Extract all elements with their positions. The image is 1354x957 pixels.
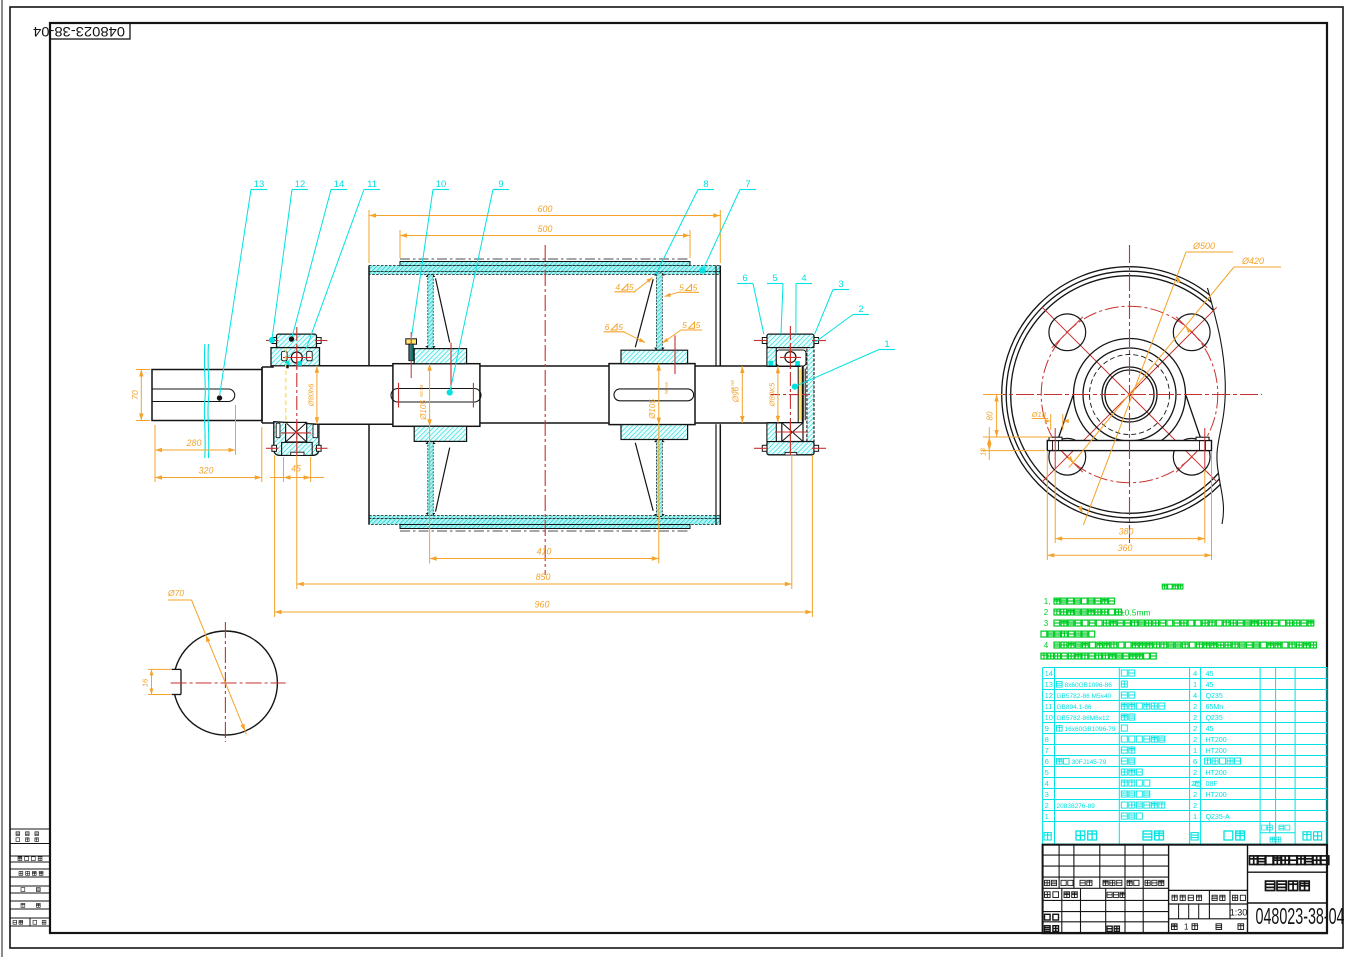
svg-text:7: 7 — [745, 179, 750, 190]
drum shell top plate — [369, 266, 720, 272]
left bearing hidden key — [285, 348, 287, 424]
svg-text:45: 45 — [1206, 671, 1214, 678]
svg-text:6: 6 — [742, 273, 747, 284]
dim 45 — [283, 457, 285, 482]
dim 70 — [136, 369, 150, 371]
svg-text:HT200: HT200 — [1206, 792, 1227, 799]
right web plate — [656, 273, 662, 350]
shaft step — [261, 367, 263, 423]
title block middle — [1169, 889, 1248, 891]
svg-text:1: 1 — [1184, 923, 1189, 932]
svg-text:Q235: Q235 — [1206, 715, 1223, 722]
dim 360 — [1046, 452, 1048, 560]
svg-text:H8: H8 — [419, 384, 424, 390]
svg-text:Ø80h6: Ø80h6 — [307, 383, 316, 407]
left web plate — [428, 275, 433, 349]
svg-text:Ø105: Ø105 — [419, 400, 428, 421]
svg-text:20838276-89: 20838276-89 — [1057, 803, 1096, 810]
svg-text:H8: H8 — [664, 382, 669, 388]
svg-text:30FJ145-79: 30FJ145-79 — [1072, 759, 1107, 766]
title block left labels — [1045, 880, 1057, 885]
right bearing pocket — [776, 350, 806, 366]
drawing title GaiXiangGunTong — [1266, 881, 1310, 890]
svg-text:2: 2 — [1193, 790, 1197, 799]
svg-text:16x60GB1096-79: 16x60GB1096-79 — [1065, 726, 1116, 733]
border frame — [1, 0, 3, 957]
svg-text:4: 4 — [801, 273, 806, 284]
dim 960 — [274, 455, 276, 617]
parts list table — [1043, 668, 1327, 845]
svg-text:410: 410 — [537, 547, 552, 557]
svg-text:600: 600 — [538, 204, 553, 214]
svg-text:80: 80 — [986, 411, 995, 420]
svg-text:360: 360 — [1118, 543, 1133, 553]
svg-text:8: 8 — [1045, 735, 1049, 744]
base plate right boss — [1196, 437, 1209, 440]
svg-text:N8: N8 — [730, 387, 735, 393]
svg-text:5: 5 — [772, 273, 777, 284]
drum shell top phantom line — [400, 258, 690, 260]
svg-text:12: 12 — [1045, 691, 1053, 700]
right bearing centerlines — [789, 326, 791, 455]
dim 380 — [1054, 470, 1056, 543]
svg-text:380: 380 — [1119, 527, 1134, 537]
svg-text:08F: 08F — [1206, 781, 1218, 788]
svg-text:13: 13 — [254, 179, 265, 190]
svg-text:13: 13 — [1045, 680, 1053, 689]
hub circles — [1074, 339, 1186, 451]
right bearing X box — [782, 423, 803, 442]
svg-text:1:30: 1:30 — [1230, 908, 1248, 918]
dim Ø80h6 — [316, 366, 318, 424]
svg-text:Ø18: Ø18 — [1031, 410, 1047, 419]
shaft mid lines — [319, 365, 393, 367]
school name — [1248, 871, 1328, 873]
svg-text:5: 5 — [696, 320, 701, 330]
left bearing upper ball — [291, 352, 302, 363]
plate bolt centerlines — [1054, 428, 1056, 468]
svg-text:11: 11 — [367, 179, 377, 190]
detail section circle — [173, 631, 277, 735]
parts table header — [1044, 833, 1051, 840]
keyway leader dot — [217, 396, 221, 400]
shaft keyway left — [152, 389, 235, 402]
svg-text:850: 850 — [536, 572, 551, 582]
right hub key (stadium) — [614, 389, 694, 401]
svg-text:45: 45 — [291, 464, 301, 474]
svg-text:2: 2 — [1045, 801, 1049, 810]
svg-text:4: 4 — [1193, 691, 1197, 700]
svg-text:6: 6 — [605, 322, 610, 332]
svg-text:,: , — [1049, 597, 1051, 606]
svg-text:12: 12 — [295, 179, 306, 190]
svg-text:2: 2 — [1193, 768, 1197, 777]
svg-text:500: 500 — [538, 224, 553, 234]
svg-text:6: 6 — [1045, 757, 1049, 766]
svg-text:Q235: Q235 — [1206, 693, 1223, 700]
svg-text:9: 9 — [1045, 724, 1049, 733]
svg-text:Ø70: Ø70 — [167, 588, 184, 598]
svg-text:N8: N8 — [419, 391, 424, 397]
svg-text:8: 8 — [703, 179, 708, 190]
left bearing lower (X box) — [286, 422, 307, 442]
svg-text:2: 2 — [1193, 724, 1197, 733]
svg-text:H8: H8 — [730, 380, 735, 386]
svg-text:280: 280 — [186, 438, 202, 448]
svg-text:2: 2 — [858, 304, 863, 315]
svg-text:Ø80K5: Ø80K5 — [768, 382, 777, 407]
break line — [1208, 288, 1226, 524]
tech req line 6 — [1041, 653, 1156, 659]
base plate — [1047, 441, 1211, 451]
bolt circle Ø420 — [1041, 306, 1218, 483]
svg-text:2: 2 — [1193, 713, 1197, 722]
drum top lagging — [400, 262, 690, 266]
svg-text:10: 10 — [436, 179, 447, 190]
right hub body — [609, 364, 695, 425]
detail keyway — [171, 669, 181, 694]
right bearing seals — [769, 361, 774, 366]
dim 500 — [399, 230, 401, 258]
svg-text:6: 6 — [1193, 757, 1197, 766]
svg-text:GB894.1-86: GB894.1-86 — [1057, 704, 1092, 711]
bottom-left margin table — [10, 828, 50, 830]
dim 320 — [261, 427, 263, 482]
svg-text:2: 2 — [1044, 608, 1049, 617]
svg-text:1: 1 — [884, 339, 889, 350]
svg-text:h8: h8 — [664, 389, 669, 394]
svg-text:5: 5 — [679, 283, 684, 293]
dim 16 — [148, 668, 172, 670]
left hub centerline tick — [450, 343, 452, 392]
svg-text:9: 9 — [498, 179, 503, 190]
dim 850 — [296, 455, 298, 589]
svg-text:HT200: HT200 — [1206, 737, 1227, 744]
right bearing housing — [767, 334, 814, 455]
svg-text:11: 11 — [1045, 702, 1053, 711]
tech req line 4 — [1041, 631, 1095, 637]
left bearing center line — [296, 327, 298, 455]
drum center vertical — [544, 245, 546, 575]
drum shell bottom plate — [369, 516, 720, 519]
hub set bolt — [406, 339, 417, 344]
red diagonals through bolt holes — [1130, 315, 1209, 394]
svg-text:1: 1 — [1193, 680, 1197, 689]
drum left face — [368, 266, 370, 366]
base plate left boss — [1049, 437, 1062, 440]
dim Ø80K5 — [777, 366, 779, 423]
svg-text:70: 70 — [130, 390, 140, 400]
svg-text:16: 16 — [141, 678, 150, 687]
svg-text:048023-38-04: 048023-38-04 — [32, 24, 125, 39]
left bearing cap bolts — [272, 338, 277, 344]
dim 280 — [154, 425, 156, 482]
svg-text:1: 1 — [1193, 746, 1197, 755]
svg-text:4: 4 — [1193, 669, 1197, 678]
svg-text:45: 45 — [1206, 682, 1214, 689]
svg-text:320: 320 — [199, 466, 214, 476]
svg-text:Ø420: Ø420 — [1241, 256, 1264, 266]
right bearing ball — [785, 352, 796, 363]
svg-text:960: 960 — [535, 600, 550, 610]
svg-text:4: 4 — [615, 282, 620, 292]
svg-text:048023-38-04: 048023-38-04 — [1256, 903, 1345, 929]
svg-text:5: 5 — [693, 283, 698, 293]
shaft left end — [152, 370, 262, 421]
dim Ø96 — [741, 366, 743, 423]
svg-text:5: 5 — [629, 282, 634, 292]
drum right face — [715, 266, 717, 366]
svg-text:4: 4 — [1045, 779, 1049, 788]
left hub body — [393, 364, 480, 427]
svg-text:±0.5mm: ±0.5mm — [1120, 607, 1151, 617]
svg-text:5: 5 — [618, 322, 623, 332]
svg-text:4: 4 — [1044, 641, 1049, 650]
svg-text:14: 14 — [1045, 669, 1053, 678]
plummer silhouette sides — [1058, 396, 1073, 441]
svg-text:7: 7 — [1045, 746, 1049, 755]
right hub flange lower — [621, 425, 688, 440]
left hub flange upper — [414, 349, 466, 364]
drum bottom lagging — [400, 525, 690, 529]
svg-text:2: 2 — [1191, 781, 1195, 788]
svg-text:2: 2 — [1193, 735, 1197, 744]
svg-text:3: 3 — [1044, 619, 1049, 628]
svg-text:5: 5 — [1045, 768, 1049, 777]
right hub centerline tick — [674, 335, 676, 374]
dim 80 — [983, 394, 1003, 396]
svg-text:GB5782-86 M5x40: GB5782-86 M5x40 — [1057, 693, 1112, 700]
right bearing bolts — [762, 338, 767, 344]
dim 410 — [429, 364, 431, 564]
left bearing seals — [285, 361, 290, 366]
svg-text:1: 1 — [1193, 812, 1197, 821]
svg-text:10: 10 — [1045, 713, 1053, 722]
svg-text:Ø500: Ø500 — [1192, 241, 1215, 251]
end view centerlines — [988, 394, 1262, 396]
dim 600 — [368, 210, 370, 263]
left bearing plummer block — [271, 334, 320, 455]
left hub flange lower — [414, 426, 466, 441]
tech requirements title — [1162, 584, 1183, 589]
outer rim circles — [1002, 267, 1258, 523]
svg-text:18: 18 — [981, 448, 988, 456]
dim 18 plate — [981, 450, 1045, 452]
svg-text:Ø105: Ø105 — [648, 399, 657, 420]
top-left part number box — [50, 23, 130, 39]
svg-text:HT200: HT200 — [1206, 770, 1227, 777]
svg-text:45: 45 — [1206, 726, 1214, 733]
title block — [1043, 845, 1327, 934]
svg-text:14: 14 — [334, 179, 345, 190]
svg-text:GB5782-86M8x12: GB5782-86M8x12 — [1057, 715, 1110, 722]
svg-text:65Mn: 65Mn — [1206, 704, 1224, 711]
right shaft end + key — [767, 365, 801, 367]
svg-text:3: 3 — [838, 279, 843, 290]
svg-text:5: 5 — [682, 320, 687, 330]
svg-text:2: 2 — [1193, 801, 1197, 810]
left hub key (stadium) — [391, 389, 481, 403]
svg-text:Q235-A: Q235-A — [1206, 814, 1230, 821]
svg-text:HT200: HT200 — [1206, 748, 1227, 755]
cyan break lines — [204, 344, 205, 458]
svg-text:1: 1 — [1045, 812, 1049, 821]
svg-text:2: 2 — [1193, 702, 1197, 711]
bolt holes — [1049, 314, 1086, 351]
detail centerlines — [171, 682, 286, 684]
svg-text:3: 3 — [1045, 790, 1049, 799]
right hub flange upper — [621, 350, 688, 363]
svg-text:8x60GB1096-86: 8x60GB1096-86 — [1065, 682, 1113, 689]
